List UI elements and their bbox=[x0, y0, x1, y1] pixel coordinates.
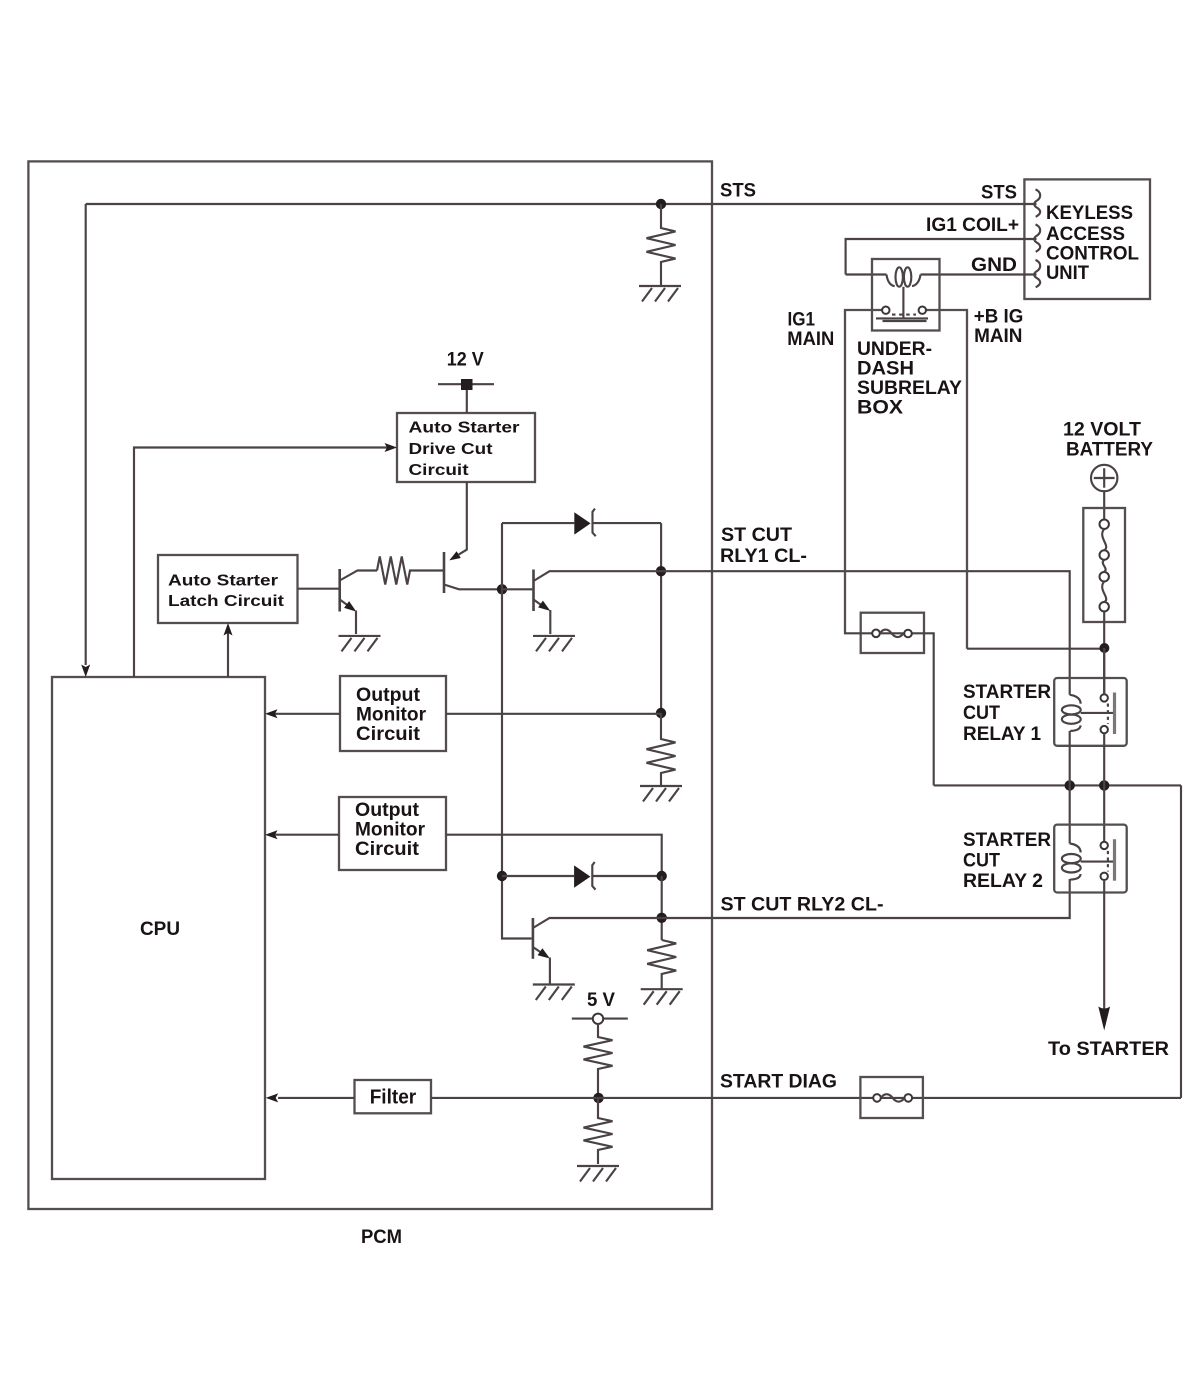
svg-text:START DIAG: START DIAG bbox=[720, 1071, 837, 1093]
ground G2 bbox=[339, 636, 381, 652]
resistor R4 (5V pull-up) bbox=[584, 1024, 613, 1098]
svg-text:Auto Starter: Auto Starter bbox=[409, 420, 520, 437]
wire OMC1 to CPU bbox=[270, 713, 340, 715]
transistor Q3 base wire bbox=[502, 588, 533, 590]
relay1 contacts bbox=[1101, 694, 1108, 701]
relay1 fixed contact bar bbox=[1113, 693, 1116, 735]
power 5 V symbol bbox=[572, 1018, 628, 1020]
diode D1 cathode wire bbox=[593, 522, 662, 524]
ground G5 bbox=[533, 985, 575, 1001]
svg-text:Circuit: Circuit bbox=[409, 462, 470, 479]
fusible link box bbox=[1083, 508, 1125, 622]
diode D2 cathode wire bbox=[592, 875, 661, 877]
node START DIAG junction bbox=[593, 1093, 603, 1103]
svg-text:12 VOLT: 12 VOLT bbox=[1063, 419, 1141, 441]
svg-text:BOX: BOX bbox=[857, 397, 903, 419]
arrowhead OMC2 into CPU bbox=[265, 830, 278, 839]
svg-text:PCM: PCM bbox=[361, 1226, 402, 1248]
CPU box U1 bbox=[52, 677, 265, 1179]
svg-text:Latch Circuit: Latch Circuit bbox=[168, 593, 285, 610]
ground G1 bbox=[639, 286, 681, 302]
power 12 V symbol bbox=[438, 383, 494, 385]
diode D2 bbox=[574, 865, 590, 887]
arrowhead into Latch box bottom bbox=[224, 623, 233, 636]
wire relay bus y785 bbox=[934, 784, 1181, 786]
wire Q4 emitter to ground bbox=[549, 958, 551, 985]
wire +B IG MAIN to battery node bbox=[967, 648, 1105, 650]
svg-text:GND: GND bbox=[971, 254, 1017, 276]
node D2 anode junction bbox=[497, 871, 507, 881]
wire battery to fusible link bbox=[1103, 491, 1105, 519]
transistor Q4 base bar bbox=[532, 918, 535, 959]
connector pin GND (keyless) bbox=[1034, 260, 1040, 287]
transistor Q2 base bar bbox=[443, 552, 446, 593]
svg-text:RLY1 CL-: RLY1 CL- bbox=[720, 545, 807, 567]
svg-text:Circuit: Circuit bbox=[356, 723, 421, 745]
svg-text:KEYLESS: KEYLESS bbox=[1046, 202, 1133, 224]
relay IG1 MAIN coil stem bbox=[902, 287, 904, 319]
fusible link chain bbox=[1100, 520, 1109, 529]
arrowhead Filter into CPU bbox=[266, 1093, 279, 1102]
ground G4 bbox=[640, 786, 682, 802]
wire OMC1 right to node bbox=[446, 713, 661, 715]
arrowhead into CPU top bbox=[81, 665, 90, 678]
node STS junction bbox=[656, 199, 666, 209]
wire Q3 emitter to ground bbox=[549, 610, 551, 634]
svg-text:CUT: CUT bbox=[963, 702, 1000, 724]
resistor R2 (base resistor) bbox=[377, 557, 444, 585]
ground G6 bbox=[641, 989, 683, 1005]
wire Drive Cut output to Q2 emitter bbox=[459, 482, 467, 555]
diode D2 anode wire bbox=[502, 875, 574, 877]
wire STS vertical into CPU bbox=[85, 204, 87, 665]
box Filter bbox=[355, 1080, 432, 1113]
fuse F1 box (IG1 MAIN) bbox=[861, 613, 924, 653]
svg-text:STARTER: STARTER bbox=[963, 829, 1051, 851]
transistor Q1 emitter bbox=[340, 600, 348, 606]
svg-text:CPU: CPU bbox=[140, 918, 180, 940]
wire Latch output to Q1 base bbox=[298, 588, 339, 590]
wire ST CUT RLY2 CL- bbox=[662, 879, 1070, 918]
wire To STARTER bbox=[1103, 880, 1105, 1010]
node battery junction bbox=[1099, 643, 1109, 653]
relay STARTER CUT RELAY 1 box bbox=[1054, 678, 1127, 746]
relay2 coil-armature link bbox=[1081, 861, 1113, 863]
relay2 contacts bbox=[1101, 842, 1108, 849]
wire IG1 COIL+ bbox=[846, 239, 1037, 275]
svg-text:BATTERY: BATTERY bbox=[1066, 439, 1153, 461]
box Keyless Access Control Unit bbox=[1024, 179, 1150, 299]
svg-text:STS: STS bbox=[720, 180, 756, 202]
node ST CUT RLY1 junction bbox=[656, 566, 666, 576]
transistor Q3 base bar bbox=[532, 570, 535, 612]
diode D1 anode wire bbox=[502, 522, 574, 524]
relay1 coil-armature link bbox=[1081, 712, 1113, 714]
relay2 fixed contact bar bbox=[1113, 839, 1116, 881]
wire into fuse F1 bbox=[845, 632, 934, 785]
transistor Q2 collector bbox=[444, 585, 500, 590]
wire vertical net x502 (D1 anode / Q3 base / D2 anode / Q4 base) bbox=[502, 523, 532, 938]
wire right-edge vertical to starter net bbox=[1180, 785, 1182, 1098]
wire CPU to Drive Cut Circuit bbox=[134, 448, 393, 678]
wire START DIAG bbox=[431, 1097, 1181, 1099]
svg-text:RELAY 1: RELAY 1 bbox=[963, 723, 1041, 745]
svg-text:STARTER: STARTER bbox=[963, 681, 1051, 703]
svg-text:Filter: Filter bbox=[370, 1086, 417, 1109]
wire fusible link to node bbox=[1103, 611, 1105, 694]
arrowhead into Drive Cut box bbox=[385, 443, 398, 452]
resistor R1 (STS pull) bbox=[647, 204, 676, 286]
svg-text:To STARTER: To STARTER bbox=[1048, 1038, 1169, 1060]
relay IG1 MAIN contacts bbox=[882, 307, 889, 314]
node Q2 collector junction bbox=[497, 584, 507, 594]
arrowhead PNP emitter Q2 bbox=[449, 551, 461, 560]
wire battery node to relay1 contact and down to relay2 bbox=[1103, 648, 1105, 842]
ground G3 bbox=[533, 636, 575, 652]
svg-text:Auto Starter: Auto Starter bbox=[168, 573, 278, 590]
arrowhead To STARTER bbox=[1098, 1007, 1110, 1031]
wire Filter to CPU bbox=[278, 1097, 355, 1099]
under-dash subrelay box outline bbox=[845, 310, 967, 649]
svg-text:Circuit: Circuit bbox=[355, 838, 420, 860]
connector pin STS (keyless) bbox=[1034, 189, 1040, 216]
svg-text:ST CUT: ST CUT bbox=[721, 524, 792, 546]
relay IG1 MAIN coil bbox=[887, 275, 895, 287]
svg-text:RELAY 2: RELAY 2 bbox=[963, 870, 1043, 892]
svg-text:Drive Cut: Drive Cut bbox=[409, 441, 494, 458]
transistor Q4 collector bbox=[533, 918, 662, 928]
box Auto Starter Drive Cut Circuit bbox=[397, 413, 535, 482]
transistor Q1 base bar bbox=[338, 569, 341, 612]
battery positive terminal bbox=[1091, 465, 1117, 491]
resistor R3 (upper) bbox=[647, 713, 676, 786]
node relay1 coil return bbox=[1065, 780, 1075, 790]
wire vertical net x661 upper bbox=[660, 523, 662, 713]
fuse F1 element bbox=[872, 630, 880, 638]
wire GND (relay coil to keyless) bbox=[921, 273, 1037, 275]
arrowhead Q1 emitter bbox=[344, 601, 356, 612]
svg-text:5 V: 5 V bbox=[587, 989, 615, 1011]
svg-text:CUT: CUT bbox=[963, 850, 1000, 872]
node OMC1 junction bbox=[656, 708, 666, 718]
node relay contact bus bbox=[1099, 780, 1109, 790]
fuse F2 box (START DIAG) bbox=[860, 1077, 923, 1118]
svg-text:MAIN: MAIN bbox=[787, 328, 834, 350]
transistor Q4 emitter bbox=[533, 947, 541, 953]
relay2 coil bbox=[1070, 844, 1081, 853]
svg-text:IG1 COIL+: IG1 COIL+ bbox=[926, 214, 1019, 236]
transistor Q3 emitter bbox=[534, 600, 542, 606]
wire ST CUT RLY1 CL- bbox=[661, 571, 1070, 695]
diode D1 bbox=[574, 512, 590, 534]
wire OMC2 right then down bbox=[446, 835, 662, 876]
svg-text:UNIT: UNIT bbox=[1046, 262, 1089, 284]
PCM box bbox=[28, 161, 712, 1209]
relay IG1 MAIN box bbox=[872, 259, 940, 331]
wire vertical net x661.7 lower bbox=[661, 876, 663, 940]
arrowhead Q3 emitter bbox=[538, 601, 550, 611]
svg-text:ST CUT RLY2 CL-: ST CUT RLY2 CL- bbox=[721, 894, 884, 916]
relay1 coil bbox=[1070, 695, 1081, 704]
ground G7 bbox=[577, 1166, 619, 1182]
connector pin IG1 COIL+ (keyless) bbox=[1034, 224, 1040, 251]
svg-text:MAIN: MAIN bbox=[974, 325, 1022, 347]
transistor Q3 collector bbox=[534, 571, 662, 581]
wire STS horizontal bbox=[86, 203, 1037, 205]
wire Q1 emitter to ground bbox=[355, 611, 357, 635]
resistor R5 (pull-down) bbox=[584, 1098, 613, 1164]
wire relay1 coil down to bus bbox=[1069, 731, 1071, 844]
svg-text:STS: STS bbox=[981, 182, 1017, 204]
fuse F2 element bbox=[873, 1094, 881, 1102]
node D2 cathode junction bbox=[657, 871, 667, 881]
resistor R3b (lower) bbox=[647, 940, 676, 989]
arrowhead Q4 emitter bbox=[538, 948, 550, 958]
svg-text:12 V: 12 V bbox=[447, 349, 484, 371]
relay STARTER CUT RELAY 2 box bbox=[1054, 825, 1127, 893]
transistor Q1 collector bbox=[340, 571, 377, 581]
box Output Monitor Circuit 2 bbox=[339, 797, 446, 870]
arrowhead OMC1 into CPU bbox=[265, 709, 278, 718]
wire OMC2 to CPU bbox=[270, 834, 339, 836]
box Auto Starter Latch Circuit bbox=[158, 555, 298, 623]
node ST CUT RLY2 junction bbox=[657, 913, 667, 923]
wire CPU to Latch Circuit bbox=[227, 628, 229, 677]
box Output Monitor Circuit 1 bbox=[340, 676, 446, 751]
wire relay coil feed bbox=[846, 273, 887, 275]
